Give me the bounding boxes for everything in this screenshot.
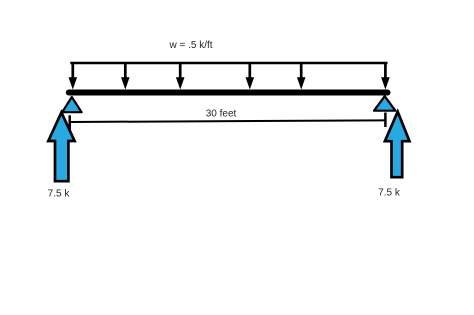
dimension line	[70, 120, 385, 122]
load arrow 3	[176, 62, 185, 89]
dimension right tick	[384, 113, 387, 128]
svg-text:30 feet: 30 feet	[206, 109, 237, 120]
load arrow 5	[297, 62, 306, 89]
svg-text:w = .5 k/ft: w = .5 k/ft	[168, 40, 212, 51]
left reaction arrow 7.5k	[48, 112, 74, 181]
load arrow 4	[246, 62, 255, 89]
load arrow 6	[381, 62, 390, 89]
right reaction arrow 7.5k	[385, 112, 410, 178]
left pin support (triangle)	[62, 97, 81, 112]
load arrow 2	[121, 62, 130, 89]
beam	[69, 90, 388, 96]
right pin support (triangle)	[374, 96, 395, 111]
dimension left tick	[68, 115, 71, 129]
load arrow 1	[69, 62, 78, 89]
svg-text:7.5 k: 7.5 k	[48, 189, 71, 200]
svg-text:7.5 k: 7.5 k	[378, 188, 401, 199]
distributed load top line	[70, 62, 387, 65]
